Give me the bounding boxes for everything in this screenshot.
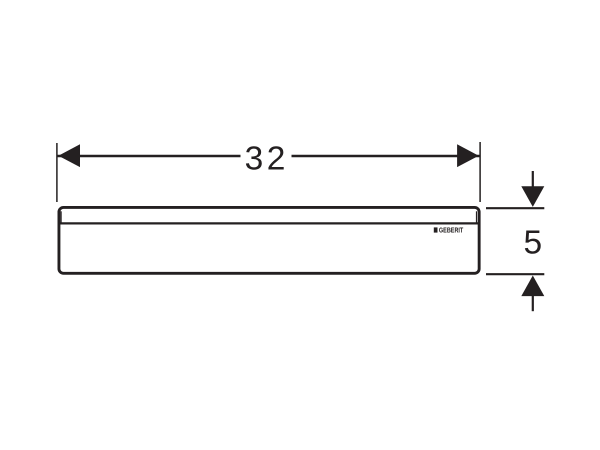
- svg-text:5: 5: [523, 225, 542, 262]
- svg-text:32: 32: [245, 140, 289, 177]
- svg-text:GEBERIT: GEBERIT: [439, 226, 464, 235]
